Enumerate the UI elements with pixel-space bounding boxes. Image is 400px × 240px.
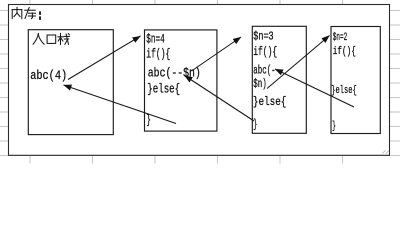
svg-text:$n): $n) [253, 77, 267, 91]
svg-text:$n=2: $n=2 [333, 32, 348, 44]
svg-text:}: } [253, 118, 257, 132]
svg-text:if(){: if(){ [253, 45, 277, 59]
svg-text:}else{: }else{ [253, 95, 287, 109]
svg-text:$n=4: $n=4 [146, 33, 165, 47]
svg-text:}: } [332, 121, 336, 133]
svg-text:}else{: }else{ [331, 85, 357, 97]
svg-text:}else{: }else{ [147, 83, 180, 97]
svg-text:abc(--: abc(-- [253, 64, 280, 78]
svg-text:$n=3: $n=3 [253, 30, 274, 44]
svg-text:abc(--$n): abc(--$n) [148, 66, 201, 80]
svg-text:if(){: if(){ [146, 47, 170, 61]
svg-text:}: } [146, 114, 151, 128]
svg-text:abc(4): abc(4) [30, 69, 67, 83]
svg-text:if(){: if(){ [333, 46, 356, 58]
